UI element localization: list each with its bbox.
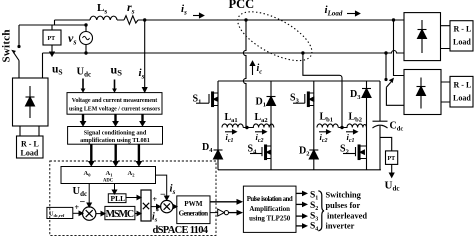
svg-text:PCC: PCC <box>229 0 255 11</box>
diode in bridge B1 <box>418 20 427 53</box>
svg-text:R - L: R - L <box>454 25 472 34</box>
svg-text:−: − <box>80 197 86 208</box>
node phase A midpoint <box>245 126 248 129</box>
switch SW2 blade <box>386 79 393 88</box>
arrow ic2 B <box>319 130 330 134</box>
svg-text:iLoad: iLoad <box>325 4 343 18</box>
arrow MSMC to multiplier <box>135 211 141 215</box>
svg-text:D3: D3 <box>350 89 361 101</box>
summer X2 circle <box>161 200 173 212</box>
rectifier bridge B2 <box>404 70 441 115</box>
arrow ic1 B <box>346 130 357 134</box>
arrow ic1 A <box>225 130 236 134</box>
wire W2 to phase B midpoint <box>303 53 342 128</box>
node SW1 <box>17 45 20 48</box>
node W2 mid <box>301 51 304 54</box>
svg-text:Signal conditioning and: Signal conditioning and <box>84 130 147 137</box>
svg-text:Cdc: Cdc <box>390 121 404 133</box>
diode D1 <box>267 81 276 128</box>
arrow ic annotation <box>250 61 254 75</box>
inductor La1 <box>222 124 247 128</box>
R-L load box 1R <box>450 21 473 51</box>
svg-text:vs: vs <box>68 31 76 47</box>
inductor Ls <box>90 16 117 20</box>
arrow is annotation <box>193 13 204 17</box>
box signal conditioning <box>68 127 163 145</box>
arrow PT2 output Udc <box>390 164 394 177</box>
arrow summer X2 to PWM <box>173 205 177 209</box>
svg-text:PWM: PWM <box>184 200 203 208</box>
svg-text:S3: S3 <box>290 93 300 105</box>
svg-text:D2: D2 <box>299 146 309 158</box>
svg-text:S4: S4 <box>248 144 258 156</box>
node phase B midpoint <box>340 126 343 129</box>
svg-text:Lb2: Lb2 <box>349 112 363 124</box>
svg-text:using TLP250: using TLP250 <box>249 216 291 223</box>
svg-text:R - L: R - L <box>21 140 39 149</box>
svg-text:Switch: Switch <box>1 30 13 63</box>
node vs-bottom <box>84 51 87 54</box>
svg-text:is: is <box>170 183 176 197</box>
converter bottom rail <box>218 169 381 171</box>
box PLL <box>108 194 126 203</box>
svg-text:ic: ic <box>257 63 263 76</box>
box measurement LEM <box>67 93 162 115</box>
node W1 right <box>392 18 395 21</box>
diode in load L1 <box>26 86 35 118</box>
arrow ADC to PLL <box>112 184 116 195</box>
converter top rail <box>218 80 380 82</box>
arrow Udc into measurement box <box>81 79 86 93</box>
svg-text:Udc,ref: Udc,ref <box>49 211 65 218</box>
svg-text:A0: A0 <box>84 170 92 178</box>
arrow ic2 A <box>255 130 266 134</box>
svg-text:S1: S1 <box>193 94 202 106</box>
svg-text:Amplification: Amplification <box>249 206 290 213</box>
svg-text:D4: D4 <box>202 142 213 154</box>
box PWM <box>177 196 210 224</box>
R-L load box 2R <box>450 76 473 107</box>
node W2 right <box>384 51 387 54</box>
svg-text:rs: rs <box>127 0 135 16</box>
wire switch branch top <box>19 24 86 26</box>
capacitor Cdc <box>373 81 388 170</box>
arrows box1 to box2 thick <box>83 114 143 121</box>
arrow PWM to pulse box upper <box>210 199 243 205</box>
node is tap <box>143 18 146 21</box>
svg-text:Switching: Switching <box>326 191 362 200</box>
svg-text:pulses for: pulses for <box>326 201 361 210</box>
svg-text:PT: PT <box>388 156 396 162</box>
diode D3 <box>362 81 371 128</box>
dSPACE dashed border <box>50 161 216 235</box>
transformer PT1 <box>43 25 61 45</box>
svg-text:uS: uS <box>111 63 123 78</box>
inverter NOT gate <box>210 209 243 216</box>
svg-text:Generation: Generation <box>179 210 209 218</box>
svg-text:dSPACE 1104: dSPACE 1104 <box>153 225 209 236</box>
wire W1 top AC line <box>55 20 405 25</box>
svg-text:is: is <box>139 67 145 81</box>
wire SW2 to bridge2 lower <box>386 87 404 105</box>
box Udcref <box>47 207 73 218</box>
svg-text:Udc: Udc <box>77 67 92 79</box>
svg-text:uS: uS <box>52 64 63 77</box>
node SW2 <box>384 78 387 81</box>
arrow Udc to summer <box>87 184 91 208</box>
svg-text:Voltage and current measuremen: Voltage and current measurement <box>72 98 157 104</box>
box multiplier <box>141 190 151 221</box>
wire W2 return line <box>43 51 405 54</box>
svg-text:Load: Load <box>453 94 471 103</box>
R-L load box 1L <box>17 136 44 158</box>
wire W1 to bridge2 upper <box>394 20 405 76</box>
diode D2 <box>309 128 318 170</box>
arrow Udcref to summer <box>73 211 83 215</box>
svg-text:La1: La1 <box>225 112 238 124</box>
arrow uS into measurement box <box>112 80 117 93</box>
mosfet S1 <box>196 81 218 128</box>
switch SW1 blade <box>12 51 19 61</box>
arrows S1-S4 outputs <box>296 193 303 226</box>
box pulse isolation TLP250 <box>243 186 296 232</box>
box MSMC <box>105 206 135 219</box>
svg-text:R - L: R - L <box>454 81 472 90</box>
diode D4 <box>214 128 223 170</box>
svg-text:La2: La2 <box>255 112 268 124</box>
arrow iLoad annotation <box>347 11 360 15</box>
arrow multiplier to summer X2 <box>151 205 161 209</box>
inductor Lb2 <box>342 124 366 128</box>
inductor Lb1 <box>317 124 342 128</box>
svg-text:S4: S4 <box>310 222 318 233</box>
svg-text:S1: S1 <box>310 191 318 202</box>
svg-text:using LEM voltage / current se: using LEM voltage / current sensors <box>69 107 161 113</box>
ellipse PCC dotted <box>231 2 319 71</box>
svg-text:+: + <box>75 203 80 212</box>
svg-text:D1: D1 <box>256 97 266 109</box>
wire is measurement tap <box>143 20 147 92</box>
mosfet S3 <box>293 81 314 128</box>
svg-text:−: − <box>160 190 166 201</box>
svg-text:Udc: Udc <box>385 180 400 193</box>
load L1 diode box <box>13 78 49 126</box>
svg-text:ADC: ADC <box>103 179 114 184</box>
mosfet S4 <box>250 128 271 170</box>
wire W2 to switch SW2 <box>385 53 387 80</box>
source vs <box>80 25 93 53</box>
svg-text:MSMC: MSMC <box>106 209 134 220</box>
svg-text:PT: PT <box>48 36 56 42</box>
summer X1 circle <box>83 207 96 220</box>
brace switching pulses <box>318 191 324 231</box>
svg-text:Lb1: Lb1 <box>320 112 334 124</box>
arrow PLL to multiplier <box>126 195 141 199</box>
svg-text:*: * <box>156 208 160 216</box>
svg-text:PLL: PLL <box>111 194 126 203</box>
svg-text:inverter: inverter <box>326 222 355 231</box>
arrow PT1 output uS <box>50 45 54 56</box>
svg-text:Pulse isolation and: Pulse isolation and <box>247 196 293 203</box>
wire L1 legs <box>20 126 39 136</box>
node PCC <box>244 18 247 21</box>
mosfet S2 <box>343 128 367 170</box>
svg-text:+: + <box>153 195 158 204</box>
svg-text:amplification using TL081: amplification using TL081 <box>80 137 150 144</box>
node vs-top <box>84 23 87 26</box>
svg-text:A1: A1 <box>106 170 114 178</box>
wire B2 to RL load 2R <box>441 82 450 102</box>
wire PCC to phase A midpoint with hops <box>243 20 246 128</box>
svg-text:A2: A2 <box>128 170 136 178</box>
transformer PT2 <box>380 137 398 164</box>
wire B1 to RL load 1R <box>441 26 451 49</box>
svg-text:S2: S2 <box>340 144 349 156</box>
svg-text:Load: Load <box>21 149 39 158</box>
rectifier bridge B1 <box>404 13 441 61</box>
svg-text:is: is <box>181 3 187 17</box>
svg-text:Ls: Ls <box>97 2 107 16</box>
wire W2 left drop to load1 <box>42 53 44 78</box>
wire ADC to is feedback <box>156 175 169 200</box>
resistor rs <box>124 16 138 25</box>
diode in bridge B2 <box>417 78 426 109</box>
arrow summer to MSMC <box>96 212 105 216</box>
svg-text:Load: Load <box>453 38 471 47</box>
switch SW1 wire <box>18 25 20 78</box>
svg-text:S2: S2 <box>310 201 318 212</box>
arrows box2 to ADC thick <box>91 144 139 161</box>
svg-text:interleaved: interleaved <box>327 212 367 221</box>
inductor La2 <box>247 124 274 128</box>
box ADC <box>61 167 156 184</box>
